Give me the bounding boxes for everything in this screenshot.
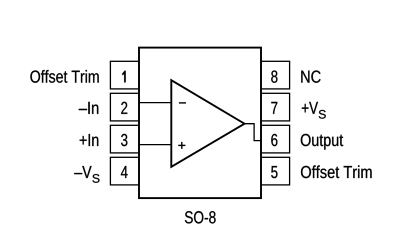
pin 7 box xyxy=(261,93,290,121)
wire pin2 to inverting input xyxy=(139,102,171,104)
op-amp A1 triangle xyxy=(171,80,244,167)
label pin8 NC xyxy=(301,70,320,82)
label pin5 Offset Trim xyxy=(301,165,372,178)
minus sign at inverting input xyxy=(179,102,186,104)
pin 1 number xyxy=(122,71,126,83)
pin 6 box xyxy=(261,125,290,153)
package name SO-8 xyxy=(185,211,216,223)
wire pin3 to non-inverting input xyxy=(139,144,171,146)
label pin2 -In xyxy=(79,102,99,114)
pin 4 box xyxy=(110,157,139,185)
pin 3 box xyxy=(110,125,139,153)
pin 8 box xyxy=(261,61,290,89)
label pin7 +VS xyxy=(302,102,318,114)
pin 4 number xyxy=(121,166,128,178)
label pin4 -VS xyxy=(74,166,91,178)
pin 6 number xyxy=(271,134,277,146)
pin 3 number xyxy=(121,134,127,146)
label pin1 Offset Trim xyxy=(30,70,98,83)
pin 5 box xyxy=(261,157,290,185)
wire op-amp output to pin 6 xyxy=(244,124,261,141)
pin 5 number xyxy=(271,166,277,178)
plus sign at non-inverting input xyxy=(178,144,185,146)
pin 7 number xyxy=(271,102,277,114)
label pin3 +In xyxy=(80,134,99,146)
pin 8 number xyxy=(271,70,277,82)
label pin6 Output xyxy=(301,134,343,150)
IC body U1 (SO-8 package outline) xyxy=(139,48,261,199)
pin 2 number xyxy=(121,102,127,114)
pin 2 box xyxy=(110,93,139,121)
pin 1 box xyxy=(110,61,139,89)
